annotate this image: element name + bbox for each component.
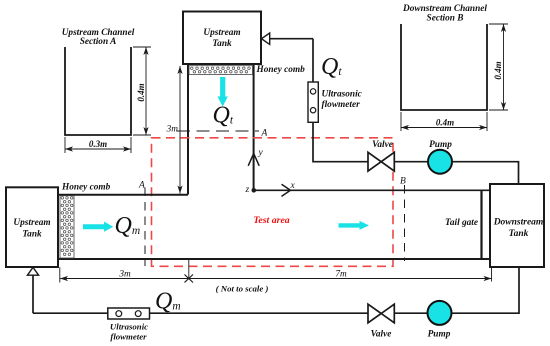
section B horizontal dimension 0.4m — [401, 127, 487, 129]
svg-text:Tank: Tank — [22, 230, 42, 240]
svg-text:3m: 3m — [166, 125, 179, 135]
svg-text:Downstream Channel: Downstream Channel — [402, 4, 487, 14]
wire: bottom loop pipe from left tank down — [32, 275, 34, 313]
wire: bottom pipe middle segment — [150, 312, 369, 314]
honeycomb strip (left channel) — [60, 196, 74, 258]
section B vertical dimension 0.4m — [503, 24, 505, 110]
svg-text:Tail gate: Tail gate — [445, 218, 478, 228]
wire: pump to downstream tank (bottom) — [451, 267, 519, 313]
svg-text:Valve: Valve — [372, 140, 393, 150]
svg-text:Pump: Pump — [428, 330, 451, 340]
svg-text:Upstream: Upstream — [13, 218, 50, 228]
svg-text:3m: 3m — [118, 270, 131, 280]
section A vertical dimension 0.4m — [145, 47, 147, 135]
svg-text:flowmeter: flowmeter — [322, 100, 361, 110]
y-axis arrowhead — [248, 154, 259, 166]
cyan right arrow Qm — [83, 222, 113, 232]
wire: bottom pipe left segment — [33, 312, 108, 314]
section A horizontal dimension 0.3m — [65, 148, 131, 150]
section A extension ticks — [65, 47, 151, 153]
section marker B dashed — [404, 185, 406, 261]
wire: top loop pipe down from tank arrow — [312, 39, 314, 83]
svg-text:0.4m: 0.4m — [493, 61, 503, 79]
svg-text:Honey comb: Honey comb — [61, 183, 111, 193]
vertical channel walls — [187, 64, 189, 195]
svg-text:Honey comb: Honey comb — [256, 65, 306, 75]
wire: pipe from top tank to flowmeter pipe — [270, 38, 313, 40]
svg-text:Test area: Test area — [253, 215, 289, 226]
wire: valve to pump — [394, 161, 428, 163]
valve V2 (bottom) — [368, 304, 394, 323]
svg-text:0.4m: 0.4m — [436, 118, 454, 128]
tail gate — [480, 190, 482, 259]
section marker A (main channel) dashed — [144, 188, 146, 267]
cyan down arrow Qt — [218, 77, 228, 107]
section B extension ticks — [401, 24, 508, 131]
svg-text:A: A — [138, 181, 145, 191]
valve V1 (top) — [368, 152, 394, 171]
svg-text:y: y — [258, 148, 264, 158]
wire: valve to pump (bottom) — [394, 312, 428, 314]
svg-text:Valve: Valve — [371, 330, 392, 340]
svg-text:Ultrasonic: Ultrasonic — [322, 90, 362, 100]
svg-text:0.3m: 0.3m — [89, 139, 107, 149]
svg-text:z: z — [245, 185, 250, 195]
bottom dimension line — [60, 278, 492, 280]
main channel bottom wall — [58, 258, 490, 260]
pump P1 (top) — [428, 150, 452, 174]
main channel top wall (left segment) — [58, 194, 188, 196]
svg-text:Tank: Tank — [212, 39, 232, 49]
3m vertical dimension — [179, 66, 181, 194]
inlet arrow (hollow triangle) bottom of left tank — [27, 267, 38, 275]
section line A-A (vertical channel) — [177, 130, 259, 132]
svg-text:Downstream: Downstream — [493, 218, 544, 228]
svg-text:0.4m: 0.4m — [136, 83, 146, 101]
svg-text:7m: 7m — [335, 270, 347, 280]
ultrasonic flowmeter (bottom, horizontal) — [108, 308, 150, 319]
origin node z dot — [252, 188, 257, 193]
downstream tank — [490, 184, 544, 267]
svg-text:Section B: Section B — [427, 14, 464, 24]
upstream tank (left) — [6, 187, 58, 267]
svg-text:Upstream: Upstream — [203, 28, 240, 38]
wire: pipe from flowmeter down then right to valve — [313, 122, 368, 161]
main channel top wall / x-axis (right segment) — [254, 189, 490, 191]
honeycomb strip (top) — [189, 66, 253, 75]
svg-text:Section A: Section A — [80, 37, 117, 47]
svg-text:flowmeter: flowmeter — [110, 331, 147, 341]
x-axis arrowhead — [282, 184, 291, 196]
ultrasonic flowmeter (vertical) — [308, 82, 318, 122]
svg-text:Ultrasonic: Ultrasonic — [110, 321, 148, 331]
inlet arrow (hollow triangle) on top tank — [262, 33, 270, 44]
red test area dashed boundary — [152, 138, 394, 266]
pump P2 (bottom) — [428, 301, 452, 325]
svg-text:Pump: Pump — [429, 140, 452, 150]
svg-text:Tank: Tank — [509, 229, 529, 239]
section B channel U-shape — [401, 24, 487, 110]
upstream tank (top) — [183, 12, 261, 65]
svg-text:x: x — [290, 181, 296, 191]
svg-text:( Not to scale ): ( Not to scale ) — [216, 284, 269, 294]
dimension break marker — [185, 275, 194, 283]
svg-text:B: B — [400, 177, 406, 187]
cyan right arrow (test area) — [339, 221, 370, 230]
bottom dimension extension ticks — [60, 260, 492, 283]
wire: pump to downstream tank — [451, 162, 518, 184]
section A channel U-shape — [65, 47, 131, 135]
